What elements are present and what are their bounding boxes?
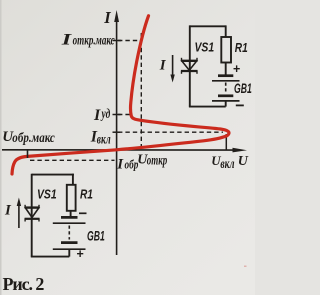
svg-text:откр: откр [147,152,168,167]
battery GB1 (TR): plate 4 long [212,100,240,102]
diode VS1 (BL): triangle [26,208,39,218]
wire: top (BL circuit) [32,174,74,176]
svg-text:I: I [116,157,124,173]
battery GB1 (BL): plate 2 long [53,222,86,224]
svg-text:вкл: вкл [220,155,234,171]
svg-text:I: I [61,31,73,48]
battery GB1 (BL): plate 3 short [61,241,78,244]
wire: right branch top stub (TR circuit) [225,25,227,37]
I axis [114,10,119,255]
label GB1 (BL) [87,230,105,244]
battery GB1 (TR): plate 1 short [218,74,233,77]
battery GB1 (TR): minus sign [236,104,244,106]
dashed guide I_вкл [118,131,223,133]
label I_уд [93,105,110,124]
wire: resistor to battery (BL) [70,211,72,216]
label I_вкл [90,128,111,147]
svg-text:вкл: вкл [97,130,111,146]
wire: top (TR circuit) [190,25,226,27]
diode VS1 (TR): cathode bar [181,70,198,72]
wire: top stub to resistor (BL) [72,174,74,185]
svg-text:обр: обр [125,158,139,172]
svg-text:GB1: GB1 [234,82,252,96]
svg-text:I: I [4,202,12,218]
wire: left branch (TR circuit) [189,25,191,106]
svg-text:GB1: GB1 [87,230,105,244]
scan speck [244,266,247,268]
wire: bottom (BL circuit) [31,256,70,258]
wire: battery to bottom (TR) [225,101,227,107]
svg-text:U: U [238,154,249,169]
svg-text:VS1: VS1 [195,40,215,54]
svg-text:U: U [211,153,221,168]
svg-text:VS1: VS1 [37,187,57,201]
svg-text:I: I [159,58,167,74]
svg-text:I: I [93,107,101,124]
diode VS1 (TR): bar end serifs [182,58,198,74]
diode VS1 (BL): anode bar [25,206,40,208]
diode VS1 (BL): bar end serifs [25,205,39,222]
wire: bottom (TR circuit) [189,106,226,108]
wire: left branch (BL circuit) [31,174,33,257]
dashed guide U_откр (vertical) [140,33,142,149]
current arrow I (BL) [17,198,21,229]
VAC curve (red) [12,16,229,174]
svg-text:+: + [233,62,241,76]
diode VS1 (BL): cathode bar [25,218,40,220]
current arrow I (TR) [170,55,174,83]
tick I_уд [113,114,121,116]
svg-text:Рис. 2: Рис. 2 [3,274,45,294]
resistor R1 (TR) [221,37,231,63]
battery GB1 (BL): dashed cell gap [68,226,70,240]
U_вкл drop line [225,134,227,150]
svg-text:откр.макс: откр.макс [73,31,116,48]
battery GB1 (TR): plate 3 short [218,94,233,97]
label R1 (TR) [235,41,248,55]
label U_обр.макс [2,129,55,145]
battery GB1 (BL): minus sign [79,212,87,214]
label I_откр.макс [61,31,116,48]
label VS1 (BL) [37,187,57,201]
label R1 (BL) [80,187,93,201]
dashed guide I_уд [118,114,131,116]
label U_откр [137,152,167,168]
battery GB1 (TR): plate 2 long [212,80,240,82]
diode VS1 (TR): anode bar [181,60,198,62]
battery GB1 (BL): plate 4 long [53,248,86,250]
battery GB1 (BL): plate 1 short [61,216,78,219]
tick I_откр.макс [113,40,122,42]
resistor R1 (BL) [67,185,76,211]
svg-text:уд: уд [100,105,110,121]
wire: resistor to battery (TR) [225,63,227,75]
dashed guide I_обр [30,159,115,161]
svg-text:обр.макс: обр.макс [12,130,55,146]
label VS1 (TR) [195,40,215,54]
svg-text:I: I [103,8,111,27]
svg-text:R1: R1 [80,187,93,201]
wire: battery to bottom (BL) [68,249,70,256]
U axis [2,148,247,153]
diode VS1 (TR): triangle [182,61,197,70]
dashed guide I_откр.макс [118,40,141,42]
tick I_вкл [113,131,121,133]
label U_вкл [211,153,234,172]
battery GB1 (TR): dashed cell gap [225,83,227,95]
tick U_обр.макс [27,149,29,158]
label GB1 (TR) [234,82,252,96]
svg-text:R1: R1 [235,41,248,55]
label I_обр [116,157,138,173]
svg-text:+: + [76,247,84,261]
